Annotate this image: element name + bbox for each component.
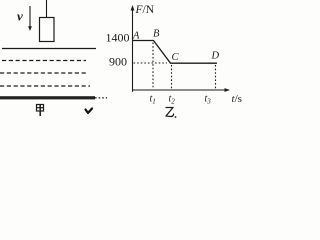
dotted drop line from B at t1: [152, 43, 154, 90]
dashed level line 2: [0, 72, 88, 74]
svg-text:B: B: [153, 29, 160, 40]
force curve A-B-C-D: [133, 41, 218, 64]
svg-text:D: D: [211, 51, 220, 62]
svg-text:1400: 1400: [106, 31, 130, 45]
dotted drop line from D at t3: [215, 65, 217, 89]
svg-text:C: C: [172, 52, 180, 63]
velocity down arrow: [28, 6, 32, 31]
svg-text:F/N: F/N: [135, 4, 155, 16]
ground band trailing dots: [95, 97, 107, 99]
svg-text:900: 900: [109, 55, 127, 69]
caption jia (figure 1): [37, 105, 44, 117]
caption yi (figure 2): [166, 108, 174, 117]
svg-text:A: A: [132, 31, 140, 42]
water surface solid line: [2, 48, 96, 50]
stray check mark: [86, 109, 93, 114]
string (suspension line): [46, 0, 48, 18]
svg-text:v: v: [17, 9, 23, 24]
y-axis F/N: [131, 5, 135, 92]
dotted 900 level line: [134, 62, 168, 64]
x-axis t: [133, 88, 231, 92]
caption yi trailing dot: [175, 116, 177, 118]
svg-text:t/s: t/s: [232, 93, 242, 105]
dashed level line 3: [0, 85, 90, 87]
dotted drop line from C at t2: [171, 65, 173, 89]
dashed level line 1: [2, 60, 86, 62]
bottom thick ground band: [0, 96, 95, 99]
hanging box (object): [40, 18, 55, 42]
